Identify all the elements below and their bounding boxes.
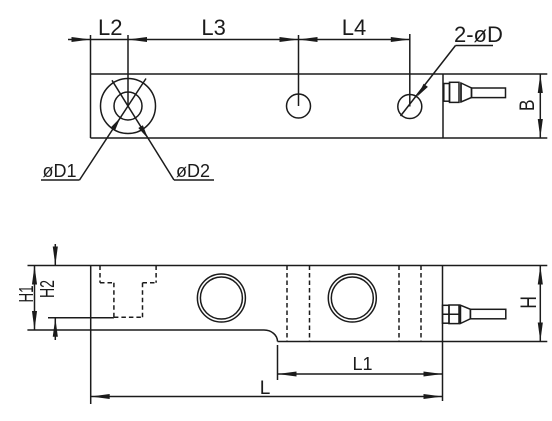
dimension H2 line lower [54,318,56,340]
side view left edge and L extension [90,266,92,405]
svg-text:B: B [516,100,539,112]
landing line 2-OD [456,45,494,47]
dimension H2 line upper [54,244,56,266]
arrow L3 right [280,37,299,42]
leader line OD1 [80,79,147,181]
cable gland side view cone [460,305,470,323]
dimension line L2 L3 L4 [68,39,410,41]
svg-text:H2: H2 [37,280,59,298]
cable top view [472,88,506,98]
cable gland side view neck line [459,305,461,323]
arrow B top [538,74,543,93]
dimension L line [91,396,443,398]
arrowhead OD1 [110,118,120,131]
svg-text:L3: L3 [201,15,225,40]
arrow at x128 [128,37,147,42]
hole circle D1 outer [101,79,156,134]
svg-text:øD1: øD1 [43,161,77,181]
svg-text:H: H [516,296,541,309]
side view top edge [28,265,548,267]
hole circle middle [287,94,311,118]
arrow B bottom [538,119,543,138]
extension line middle hole [298,35,300,106]
cable gland side view block2 [449,305,459,324]
side view step corner [264,330,278,342]
side view right edge and L extension [442,266,444,402]
svg-text:L: L [260,378,271,399]
cable gland top view block1 [444,84,450,102]
arrowhead 2-OD [417,84,428,97]
H2 extension line [48,317,114,319]
hidden counterbore dashed [100,266,156,318]
cable gland top view block2 [450,82,460,102]
cable gland side view midline [443,313,460,315]
side pocket circle left inner [200,277,242,319]
hidden web edges dashed [287,266,421,342]
hole circle right [398,95,422,119]
dimension L1 line [278,373,443,375]
svg-text:øD2: øD2 [176,161,210,181]
leader line OD2 [112,80,174,180]
cable gland top view neck line [460,83,462,102]
leader line 2-OD [401,46,456,117]
extension line left edge top [90,35,92,74]
underline OD2 [174,179,214,181]
side pocket circle right outer [328,274,376,322]
underline OD1 [41,179,80,181]
side pocket circle left outer [197,274,245,322]
svg-text:L4: L4 [342,15,366,40]
centerline through hole 1 [127,35,129,106]
extension line right hole [409,34,411,107]
arrow at x90 [72,37,91,42]
cable gland top view cone [461,83,472,102]
L1 left extension [277,345,279,380]
side pocket circle right inner [331,277,373,319]
dimension H1 line [34,266,36,331]
dimension B line [539,74,541,138]
cable gland side view block1 [443,305,450,323]
dimension H line [539,266,541,342]
hole circle D2 inner [114,92,142,120]
svg-text:L2: L2 [98,15,122,40]
arrowhead OD2 [138,125,148,138]
svg-text:2-øD: 2-øD [454,22,503,47]
svg-text:H1: H1 [16,286,38,303]
svg-text:L1: L1 [352,354,372,374]
side view bottom right edge [278,341,548,343]
cable side view [470,309,505,319]
arrow L4 right [391,37,410,42]
side view bottom left edge [27,329,264,331]
arrow L4 left [299,37,318,42]
top view body outline [91,74,548,138]
